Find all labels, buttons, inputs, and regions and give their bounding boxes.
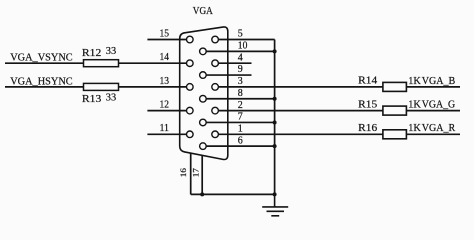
svg-text:VGA_B: VGA_B [422,76,456,87]
pin circle 14 [187,60,194,67]
junction dot pin 17 on ground wire [200,192,204,196]
svg-text:4: 4 [238,52,243,63]
wire pin 5 to ground bus [218,39,274,41]
svg-text:VGA_HSYNC: VGA_HSYNC [10,76,72,87]
svg-text:9: 9 [238,64,243,75]
wire pin 10 to ground bus [206,50,274,52]
svg-text:5: 5 [238,29,243,40]
ground wire from shield pins to bus [191,193,275,195]
resistor R14 [383,82,407,91]
wire R14 to VGA_B [406,86,460,88]
svg-text:7: 7 [238,112,243,123]
pin circle 13 [187,84,194,91]
svg-text:1K: 1K [408,123,421,134]
ground bus vertical wire [274,40,276,195]
svg-text:R14: R14 [358,76,378,87]
wire pin 7 to ground bus [206,121,274,123]
wire pin 3 to R14 [218,86,383,88]
wire pin 16 shield [190,153,192,194]
svg-text:2: 2 [238,100,243,111]
wire pin 11 stub [147,133,186,135]
pin circle 10 [200,48,207,55]
svg-text:17: 17 [190,168,200,177]
wire pin 12 stub [147,110,186,112]
junction dot ground node [273,192,277,196]
wire pin 4 stub [218,62,251,64]
wire pin 1 to R16 [218,133,383,135]
svg-text:14: 14 [160,52,170,63]
wire pin 9 stub [206,74,251,76]
svg-text:3: 3 [238,76,243,87]
svg-text:10: 10 [238,41,248,52]
svg-text:12: 12 [160,100,170,111]
wire R15 to VGA_G [406,110,460,112]
svg-text:VGA_VSYNC: VGA_VSYNC [10,53,72,64]
svg-text:1K: 1K [408,100,421,111]
wire R16 to VGA_R [406,133,460,135]
svg-text:R16: R16 [358,123,377,134]
svg-text:VGA_R: VGA_R [422,123,456,134]
svg-text:1: 1 [238,124,243,135]
wire pin 17 shield [201,155,203,194]
svg-text:33: 33 [106,46,116,57]
svg-text:16: 16 [178,168,188,177]
pin circle 4 [212,60,219,67]
svg-text:8: 8 [238,88,243,99]
junction dot pin 7 on bus [273,120,277,124]
pin circle 6 [200,143,207,150]
svg-text:6: 6 [238,135,243,146]
resistor R16 [383,130,407,139]
svg-text:VGA: VGA [193,6,213,17]
wire pin 6 to ground bus [206,145,274,147]
pin circle 1 [212,131,219,138]
pin circle 5 [212,36,219,43]
svg-text:13: 13 [160,76,170,87]
svg-text:VGA_G: VGA_G [422,100,456,111]
resistor R15 [383,106,407,115]
wire pin 8 to ground bus [206,98,274,100]
pin circle 15 [187,36,194,43]
pin circle 11 [187,131,194,138]
wire R12 to pin 14 [119,62,187,64]
svg-text:R12: R12 [82,48,101,59]
pin circle 12 [187,107,194,114]
svg-text:15: 15 [160,28,170,39]
junction dot pin 10 on bus [273,49,277,53]
svg-text:33: 33 [106,92,116,103]
junction dot pin 6 on bus [273,144,277,148]
ground symbol [262,194,288,215]
svg-text:R13: R13 [82,94,101,105]
pin circle 2 [212,107,219,114]
wire VGA_VSYNC to R12 [5,62,84,64]
pin circle 8 [200,95,207,102]
junction dot pin 8 on bus [273,97,277,101]
pin circle 3 [212,84,219,91]
svg-text:R15: R15 [358,99,377,110]
svg-text:11: 11 [160,123,170,134]
wire VGA_HSYNC to R13 [5,86,84,88]
svg-text:1K: 1K [408,76,421,87]
connector U1 VGA DB15 outline [180,27,228,160]
resistor R13 [84,83,119,90]
pin circle 9 [200,72,207,79]
wire R13 to pin 13 [119,86,187,88]
pin circle 7 [200,119,207,126]
wire pin 2 to R15 [218,110,383,112]
resistor R12 [84,60,119,67]
wire pin 15 stub [147,39,186,41]
